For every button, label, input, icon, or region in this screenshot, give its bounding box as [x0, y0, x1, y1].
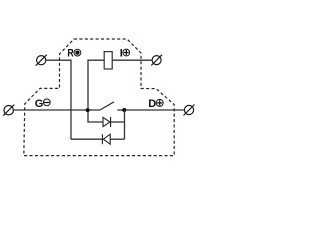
terminal top-right [151, 55, 162, 66]
dashed device outline [24, 39, 174, 156]
terminal mid-left [3, 105, 14, 116]
svg-text:D: D [148, 98, 156, 110]
wire relay right lead to top-right terminal [112, 59, 152, 61]
wire diode2 left lead [71, 138, 102, 140]
wire diode2 right lead [110, 138, 124, 140]
symbol circled-plus for D [156, 99, 163, 106]
svg-text:I: I [120, 47, 123, 59]
symbol circled-star for R [74, 49, 81, 56]
svg-text:G: G [35, 98, 44, 110]
wire diode1 cathode to right vertical [111, 121, 125, 123]
wire top-left terminal to corner [46, 60, 71, 139]
svg-text:R: R [67, 47, 73, 59]
wire G terminal to switch pivot [13, 109, 100, 111]
terminal top-left [36, 55, 47, 66]
diode D1 (points right) [103, 117, 111, 127]
switch contact stub [118, 109, 125, 111]
switch S1 blade [100, 102, 114, 110]
junction node at switch contact [122, 108, 126, 112]
wire right vertical from contact down [124, 110, 126, 139]
diode D2 (points left) [102, 134, 110, 144]
symbol circled-plus for I [123, 49, 130, 56]
terminal mid-right [184, 105, 195, 116]
symbol circled-minus for G [43, 99, 50, 106]
junction node at G wire [86, 108, 90, 112]
wire relay left lead + vertical to diode row 1 [88, 60, 104, 122]
relay coil K1 [104, 52, 112, 69]
wire contact to D terminal [125, 109, 185, 111]
